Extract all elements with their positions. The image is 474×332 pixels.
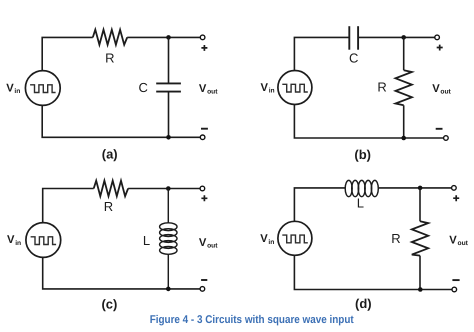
svg-text:V: V bbox=[7, 234, 15, 246]
svg-text:out: out bbox=[207, 242, 218, 249]
svg-text:in: in bbox=[269, 88, 275, 95]
terminal + (d) bbox=[452, 186, 457, 191]
label Vin (b) bbox=[261, 82, 275, 95]
wire (a) resistor to + terminal bbox=[127, 36, 200, 38]
minus sign (b) bbox=[436, 128, 443, 130]
label Vout (a) bbox=[199, 83, 218, 96]
label Vout (d) bbox=[449, 234, 468, 247]
source V4 (d) square-wave source bbox=[278, 221, 312, 255]
svg-text:V: V bbox=[261, 82, 269, 94]
wire (d) resistor to bottom bbox=[419, 256, 421, 290]
svg-text:R: R bbox=[391, 231, 400, 246]
terminal - (d) bbox=[452, 287, 457, 292]
wire (c) top-left bbox=[43, 189, 94, 223]
node bottom junction (b) bbox=[401, 136, 406, 141]
wire (c) resistor to + terminal bbox=[128, 188, 200, 190]
node top junction (c) bbox=[166, 186, 171, 191]
minus sign (a) bbox=[201, 128, 208, 130]
svg-text:in: in bbox=[268, 239, 274, 246]
minus sign (d) bbox=[452, 279, 459, 281]
svg-text:R: R bbox=[105, 50, 114, 65]
svg-text:R: R bbox=[104, 199, 113, 214]
svg-text:V: V bbox=[199, 83, 207, 95]
svg-text:out: out bbox=[207, 89, 218, 96]
resistor R4 (d) bbox=[412, 221, 428, 255]
wire (a) left-bottom bbox=[42, 105, 200, 137]
node top junction (a) bbox=[166, 35, 171, 40]
wire (b) top-left bbox=[294, 37, 349, 70]
wire (d) coil to + terminal bbox=[379, 187, 452, 189]
svg-text:(b): (b) bbox=[354, 147, 371, 162]
plus sign (c) bbox=[201, 195, 207, 201]
svg-text:L: L bbox=[357, 195, 364, 210]
wire (b) cap to + terminal bbox=[358, 36, 435, 38]
svg-text:(d): (d) bbox=[355, 296, 372, 311]
node bottom junction (a) bbox=[166, 135, 171, 140]
node top junction (b) bbox=[401, 35, 406, 40]
label Vin (a) bbox=[6, 82, 20, 95]
svg-text:C: C bbox=[349, 50, 358, 65]
wire (c) left-bottom bbox=[43, 257, 200, 289]
svg-text:in: in bbox=[15, 240, 21, 247]
inductor L2 (d) horizontal coil bbox=[345, 180, 378, 196]
svg-text:V: V bbox=[260, 233, 268, 245]
plus sign (d) bbox=[453, 195, 459, 201]
svg-text:out: out bbox=[458, 240, 469, 247]
terminal + (b) bbox=[435, 35, 440, 40]
label Vout (c) bbox=[199, 237, 218, 250]
wire (d) top-left bbox=[294, 188, 345, 221]
source V3 (c) square-wave source bbox=[26, 223, 61, 258]
wire (b) left-bottom bbox=[294, 104, 443, 138]
svg-text:Figure 4 - 3 Circuits with squ: Figure 4 - 3 Circuits with square wave i… bbox=[150, 314, 354, 326]
svg-text:out: out bbox=[440, 89, 451, 96]
svg-text:R: R bbox=[377, 80, 386, 95]
svg-text:(c): (c) bbox=[101, 297, 117, 312]
wire (d) left-bottom bbox=[294, 255, 452, 289]
svg-text:L: L bbox=[143, 233, 150, 248]
minus sign (c) bbox=[201, 279, 207, 281]
label Vin (c) bbox=[7, 234, 21, 247]
terminal + (c) bbox=[200, 186, 205, 191]
resistor R3 (c) bbox=[94, 181, 128, 197]
wire (a) top-left bbox=[42, 37, 93, 70]
source V2 (b) square-wave source bbox=[278, 71, 312, 105]
node bottom junction (d) bbox=[418, 287, 423, 292]
capacitor C1 (a) bbox=[156, 37, 181, 137]
node top junction (d) bbox=[418, 186, 423, 191]
inductor L1 (c) vertical coil bbox=[160, 189, 177, 289]
svg-text:V: V bbox=[199, 237, 207, 249]
label Vin (d) bbox=[260, 233, 274, 246]
terminal - (c) bbox=[200, 287, 205, 292]
source V1 (a) square-wave source bbox=[25, 71, 60, 106]
svg-text:V: V bbox=[6, 82, 14, 94]
wire (b) junction to resistor bbox=[403, 37, 405, 70]
node bottom junction (c) bbox=[166, 287, 171, 292]
terminal - (a) bbox=[200, 135, 205, 140]
plus sign (a) bbox=[201, 45, 207, 51]
label Vout (b) bbox=[432, 83, 451, 96]
terminal - (b) bbox=[444, 136, 449, 141]
svg-text:in: in bbox=[14, 88, 20, 95]
wire (d) junction to resistor bbox=[419, 188, 421, 221]
resistor R1 (a) bbox=[93, 30, 127, 45]
svg-text:V: V bbox=[432, 83, 440, 95]
terminal + (a) bbox=[200, 35, 205, 40]
svg-text:V: V bbox=[449, 234, 457, 246]
svg-text:(a): (a) bbox=[102, 147, 118, 162]
wire (b) resistor to bottom bbox=[403, 105, 405, 138]
plus sign (b) bbox=[437, 45, 443, 51]
svg-text:C: C bbox=[139, 80, 148, 95]
capacitor C2 (b) series bbox=[349, 26, 358, 50]
resistor R2 (b) bbox=[396, 70, 412, 105]
